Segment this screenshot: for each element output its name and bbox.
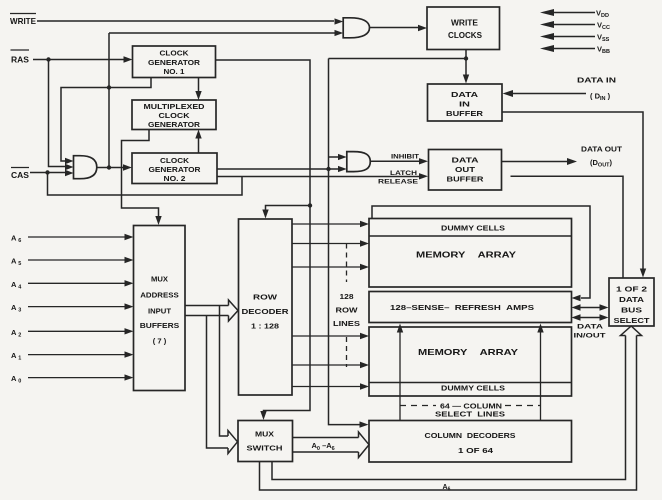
svg-text:RAS: RAS [11, 55, 29, 65]
svg-text:BUFFERS: BUFFERS [140, 321, 180, 330]
svg-text:1 OF 2: 1 OF 2 [616, 287, 647, 294]
box clock generator no.2 [132, 153, 217, 184]
wire bidirectional data bus 2 [578, 317, 602, 319]
pin DATA OUT [502, 145, 623, 169]
box 1 of 2 data bus select [609, 278, 654, 326]
node WRITE overline [10, 13, 36, 15]
svg-text:A6: A6 [443, 484, 451, 493]
wire clock gen1 bottom tap to gate G1 top input [61, 78, 151, 162]
node CAS overline [11, 167, 29, 169]
svg-text:CLOCKS: CLOCKS [448, 31, 482, 40]
wire buffers bus branch down to mux switch [207, 306, 229, 449]
power pin VCC [540, 21, 610, 32]
dashed 64 column select lines [400, 405, 436, 407]
wire write clocks down to data in buffer [465, 50, 467, 77]
svg-text:GENERATOR: GENERATOR [148, 120, 201, 129]
svg-text:1 : 128: 1 : 128 [251, 322, 279, 331]
svg-text:LINES: LINES [333, 321, 360, 328]
box multiplexed clock generator [132, 100, 216, 130]
svg-text:DATA OUT: DATA OUT [581, 145, 622, 154]
svg-text:A 3: A 3 [11, 303, 21, 314]
wire clock gen2 branch down to column decoders [329, 169, 362, 425]
address input A5 [11, 257, 134, 268]
svg-text:A 6: A 6 [11, 234, 21, 245]
address input A2 [11, 328, 134, 339]
wire data out buffer to bus select [511, 176, 624, 277]
svg-text:LATCH: LATCH [390, 170, 417, 177]
row line 2 [292, 243, 361, 245]
svg-text:WRITE: WRITE [10, 16, 36, 26]
svg-text:ROW: ROW [253, 292, 278, 301]
wire WRITE to write gate [37, 20, 334, 22]
svg-text:(DOUT): (DOUT) [590, 158, 613, 169]
svg-text:CLOCK: CLOCK [160, 49, 190, 58]
node clock2 output branch junction [326, 167, 330, 171]
arrow into mux address buffers top [155, 216, 161, 225]
box memory array top with dummy cells [369, 219, 572, 288]
svg-text:OUT: OUT [455, 165, 476, 174]
svg-text:VCC: VCC [597, 21, 610, 32]
gate G3 inhibit AND gate [347, 152, 371, 172]
open arrow into row decoder [229, 300, 239, 321]
arrow data-in bus into bus select top [640, 269, 646, 278]
row line 5 [292, 364, 361, 366]
solid arrowheads [123, 25, 469, 428]
arrow latch release into data out buffer [419, 173, 428, 179]
svg-text:DUMMY CELLS: DUMMY CELLS [441, 384, 505, 393]
arrow inhibit into data out buffer [419, 158, 428, 164]
wire column select line right [540, 332, 542, 421]
svg-text:COLUMN DECODERS: COLUMN DECODERS [425, 431, 516, 440]
node x109/y87 junction [107, 85, 111, 89]
svg-text:DECODER: DECODER [242, 307, 290, 316]
svg-text:GENERATOR: GENERATOR [149, 165, 202, 174]
arrow into column decoders left top [360, 421, 369, 427]
arrow loop into array right edge [572, 295, 581, 301]
svg-text:MULTIPLEXED: MULTIPLEXED [144, 102, 206, 111]
power pin VSS [540, 33, 610, 44]
svg-text:DUMMY CELLS: DUMMY CELLS [441, 224, 505, 233]
wire clock gen1 output right and down to mux switch [216, 60, 311, 412]
address input A6 [11, 234, 134, 245]
address input A3 [11, 303, 134, 314]
wire latch release from clock gen 2 to data out buffer [217, 176, 420, 178]
wire inhibit line to data out buffer [370, 160, 420, 162]
svg-text:DATA: DATA [452, 156, 480, 165]
svg-text:BUS: BUS [621, 308, 642, 315]
svg-text:( DIN ): ( DIN ) [590, 92, 611, 103]
node write clocks / data in buffer junction [464, 56, 468, 60]
wire A6 bus inner [272, 336, 626, 480]
box write clocks [427, 7, 500, 50]
svg-text:IN/OUT: IN/OUT [574, 332, 606, 339]
svg-text:DATA: DATA [451, 90, 479, 99]
wire column select line left [399, 332, 401, 421]
node CAS junction [45, 170, 49, 174]
address input A4 [11, 280, 134, 291]
svg-text:GENERATOR: GENERATOR [148, 58, 201, 67]
svg-text:MUX: MUX [255, 429, 274, 438]
box data out buffer [429, 150, 502, 191]
arrow clock gen2 up into multiplexed gen [195, 130, 201, 139]
wire hook into G3 top input (drawn) [329, 156, 339, 158]
svg-text:CLOCK: CLOCK [159, 111, 191, 120]
row line 6 [292, 386, 361, 388]
svg-text:DATA: DATA [619, 297, 644, 304]
node RAS junction [46, 57, 50, 61]
gate G2 input arrows [335, 18, 344, 36]
svg-text:128–SENSE– REFRESH AMPS: 128–SENSE– REFRESH AMPS [390, 303, 534, 312]
svg-text:128: 128 [340, 294, 354, 301]
svg-text:A0 –A6: A0 –A6 [312, 441, 335, 452]
svg-text:WRITE: WRITE [451, 19, 478, 28]
wire vertical x109 to write gate input 2 [109, 33, 335, 168]
svg-text:ADDRESS: ADDRESS [140, 290, 179, 299]
svg-text:VBB: VBB [597, 45, 610, 56]
open arrow A6 bus into bus select [621, 326, 642, 336]
svg-text:SELECT LINES: SELECT LINES [435, 412, 505, 419]
svg-text:INPUT: INPUT [148, 306, 172, 315]
wire buffers output bus to row decoder [185, 306, 229, 316]
svg-text:BUFFER: BUFFER [446, 109, 484, 118]
wire RAS drop to gate G1 middle input [49, 60, 67, 167]
svg-text:IN: IN [459, 100, 470, 109]
power pin VBB [540, 45, 610, 56]
wire RAS to clock generator no.1 [33, 59, 124, 61]
svg-text:MEMORY ARRAY: MEMORY ARRAY [418, 347, 518, 357]
gate G2 write AND gate [343, 18, 369, 38]
svg-text:NO. 1: NO. 1 [164, 67, 185, 76]
svg-text:SELECT: SELECT [614, 318, 651, 325]
pin DATA IN [503, 76, 617, 103]
arrow into clock gen 2 [123, 164, 132, 170]
svg-text:A 4: A 4 [11, 280, 22, 291]
svg-text:MUX: MUX [151, 274, 168, 283]
arrow into mux switch top [260, 411, 266, 420]
gate G1 CAS/RAS AND gate [74, 156, 97, 179]
box row decoder [239, 219, 293, 395]
arrow write clocks into data in buffer [463, 75, 469, 84]
arrow into row decoder top [262, 210, 268, 219]
svg-text:A 1: A 1 [11, 351, 21, 362]
gate G1 input arrows [65, 158, 74, 176]
wire top data bus loop [372, 206, 590, 298]
svg-text:MEMORY ARRAY: MEMORY ARRAY [416, 249, 516, 259]
wire data in buffer to bus select [502, 112, 643, 270]
wire A6 bus outer [260, 336, 637, 491]
row line 1 [292, 223, 361, 225]
svg-text:A 0: A 0 [11, 374, 21, 385]
wire CAS branch to latch-release net [48, 173, 243, 196]
wire bidirectional data bus 1 [578, 307, 602, 309]
box 128 sense refresh amps [369, 292, 572, 323]
svg-text:1 OF 64: 1 OF 64 [458, 446, 494, 455]
svg-text:RELEASE: RELEASE [378, 179, 419, 186]
node clock1 net / row decoder branch junction [308, 203, 312, 207]
svg-text:A 5: A 5 [11, 257, 21, 268]
svg-text:( 7 ): ( 7 ) [153, 336, 167, 345]
wire clock gen1 to multiplexed clock generator [198, 78, 200, 92]
arrow RAS into clock gen 1 [124, 56, 133, 62]
box data in buffer [428, 84, 503, 121]
row line 4 [292, 335, 361, 337]
wire clock gen2 output to inhibit gate [217, 168, 339, 170]
wire multiplexed gen tap down to address buffers [122, 130, 159, 218]
svg-text:ROW: ROW [336, 308, 359, 315]
svg-text:CLOCK: CLOCK [160, 156, 190, 165]
svg-text:INHIBIT: INHIBIT [391, 154, 419, 161]
power pin VDD [540, 9, 609, 20]
junction dots [45, 56, 468, 207]
svg-text:VSS: VSS [597, 33, 610, 44]
svg-text:A 2: A 2 [11, 328, 21, 339]
box mux address input buffers [134, 226, 186, 391]
box column decoders [369, 421, 572, 463]
svg-text:64 — COLUMN: 64 — COLUMN [440, 403, 502, 410]
svg-text:VDD: VDD [596, 9, 609, 20]
arrow write gate output into write clocks [418, 25, 427, 31]
gate G3 input arrows [338, 154, 347, 172]
arrow clock gen1 down into multiplexed gen [195, 91, 201, 100]
svg-text:NO. 2: NO. 2 [164, 174, 186, 183]
address input A1 [11, 351, 134, 362]
wire write gate output to write clocks [370, 27, 420, 29]
node RAS overline [11, 49, 30, 51]
wire clock gen2 to multiplexed clock generator [198, 138, 200, 153]
dashed 128 row lines bus [346, 244, 348, 283]
wire branch to row decoder top [266, 206, 311, 212]
row line 3 [292, 266, 361, 268]
svg-text:DATA: DATA [577, 324, 603, 331]
svg-text:DATA IN: DATA IN [577, 76, 616, 85]
svg-text:SWITCH: SWITCH [247, 443, 283, 452]
svg-text:BUFFER: BUFFER [447, 175, 485, 184]
open arrow into column decoders [359, 432, 370, 458]
box memory array bottom with dummy cells [369, 327, 572, 396]
wire mux switch bus to column decoders [293, 438, 359, 453]
wire clock gen2 riser to write clocks line [329, 59, 467, 170]
wire gate G1 output to clock generator no.2 [97, 167, 125, 169]
address input A0 [11, 374, 134, 385]
node x109/y167.5 junction [107, 165, 111, 169]
open arrow into mux switch [228, 431, 238, 454]
box clock generator no.1 [133, 46, 216, 78]
svg-text:CAS: CAS [11, 170, 29, 180]
wire CAS to gate G1 bottom input [30, 172, 66, 174]
box mux switch [238, 421, 293, 462]
